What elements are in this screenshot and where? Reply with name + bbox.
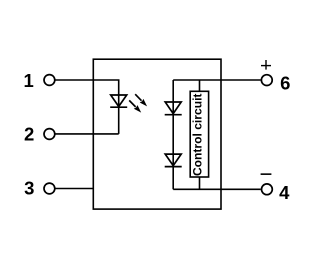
svg-text:3: 3	[24, 178, 34, 199]
svg-text:2: 2	[24, 124, 34, 145]
svg-text:6: 6	[280, 73, 290, 94]
svg-text:1: 1	[24, 70, 34, 91]
svg-text:Control circuit: Control circuit	[192, 93, 204, 176]
svg-text:4: 4	[279, 182, 290, 203]
